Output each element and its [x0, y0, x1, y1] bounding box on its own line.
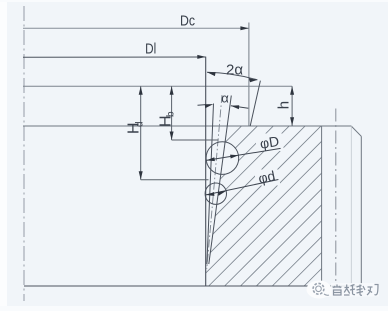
measuring pin circle D	[206, 142, 239, 175]
Dl arrow	[197, 55, 206, 59]
a right arrow	[231, 106, 248, 109]
h dimension line	[291, 86, 293, 126]
svg-text:φD: φD	[259, 133, 280, 152]
block top edge line	[23, 125, 351, 127]
block right edge	[360, 136, 362, 286]
block left edge	[205, 57, 207, 286]
svg-text:α: α	[221, 90, 229, 105]
block bottom edge line	[24, 285, 361, 287]
flank construction line (2a)	[250, 81, 260, 126]
web/rim step vertical	[321, 126, 323, 286]
chamfer top-right	[351, 126, 361, 136]
Hd bottom reference line	[141, 179, 209, 181]
svg-text:b: b	[166, 111, 177, 117]
faint vertical under chamfer corner	[350, 126, 352, 286]
phiD dimension line	[206, 148, 280, 160]
svg-text:Dl: Dl	[145, 40, 156, 57]
Hb label (rotated)	[157, 111, 176, 127]
a left arrow	[198, 104, 207, 107]
Dl dimension line	[23, 56, 206, 58]
watermark mascot white blob	[307, 281, 332, 299]
gear pitch axis (vertical dash-dot right)	[335, 109, 337, 288]
Hd dimension line	[140, 86, 142, 180]
svg-text:Dc: Dc	[180, 12, 195, 28]
watermark text (CJK-like strokes for 齿轮传动)	[333, 285, 379, 296]
watermark text halo	[331, 283, 379, 297]
main centerline (vertical axis, dash-dot)	[23, 6, 25, 301]
svg-text:h: h	[276, 101, 293, 109]
svg-text:2α: 2α	[226, 62, 243, 79]
phid dimension line	[206, 180, 279, 195]
Hb dimension line	[171, 86, 173, 140]
measuring pin circle d	[205, 183, 226, 204]
2a dimension arc	[207, 72, 257, 80]
Hb bottom reference line	[172, 139, 219, 141]
groove left flank	[207, 104, 214, 265]
svg-text:d: d	[135, 121, 146, 127]
reference line y=86	[23, 85, 292, 87]
Dc extension line	[248, 23, 250, 127]
watermark gear icon	[313, 283, 329, 295]
hatching of block cross-section	[78, 115, 388, 290]
groove centerline dash-dot	[207, 95, 222, 269]
Dc arrow	[240, 26, 249, 30]
Hd label (rotated)	[126, 121, 146, 134]
groove right flank	[209, 96, 232, 265]
Dc dimension line	[23, 27, 249, 29]
